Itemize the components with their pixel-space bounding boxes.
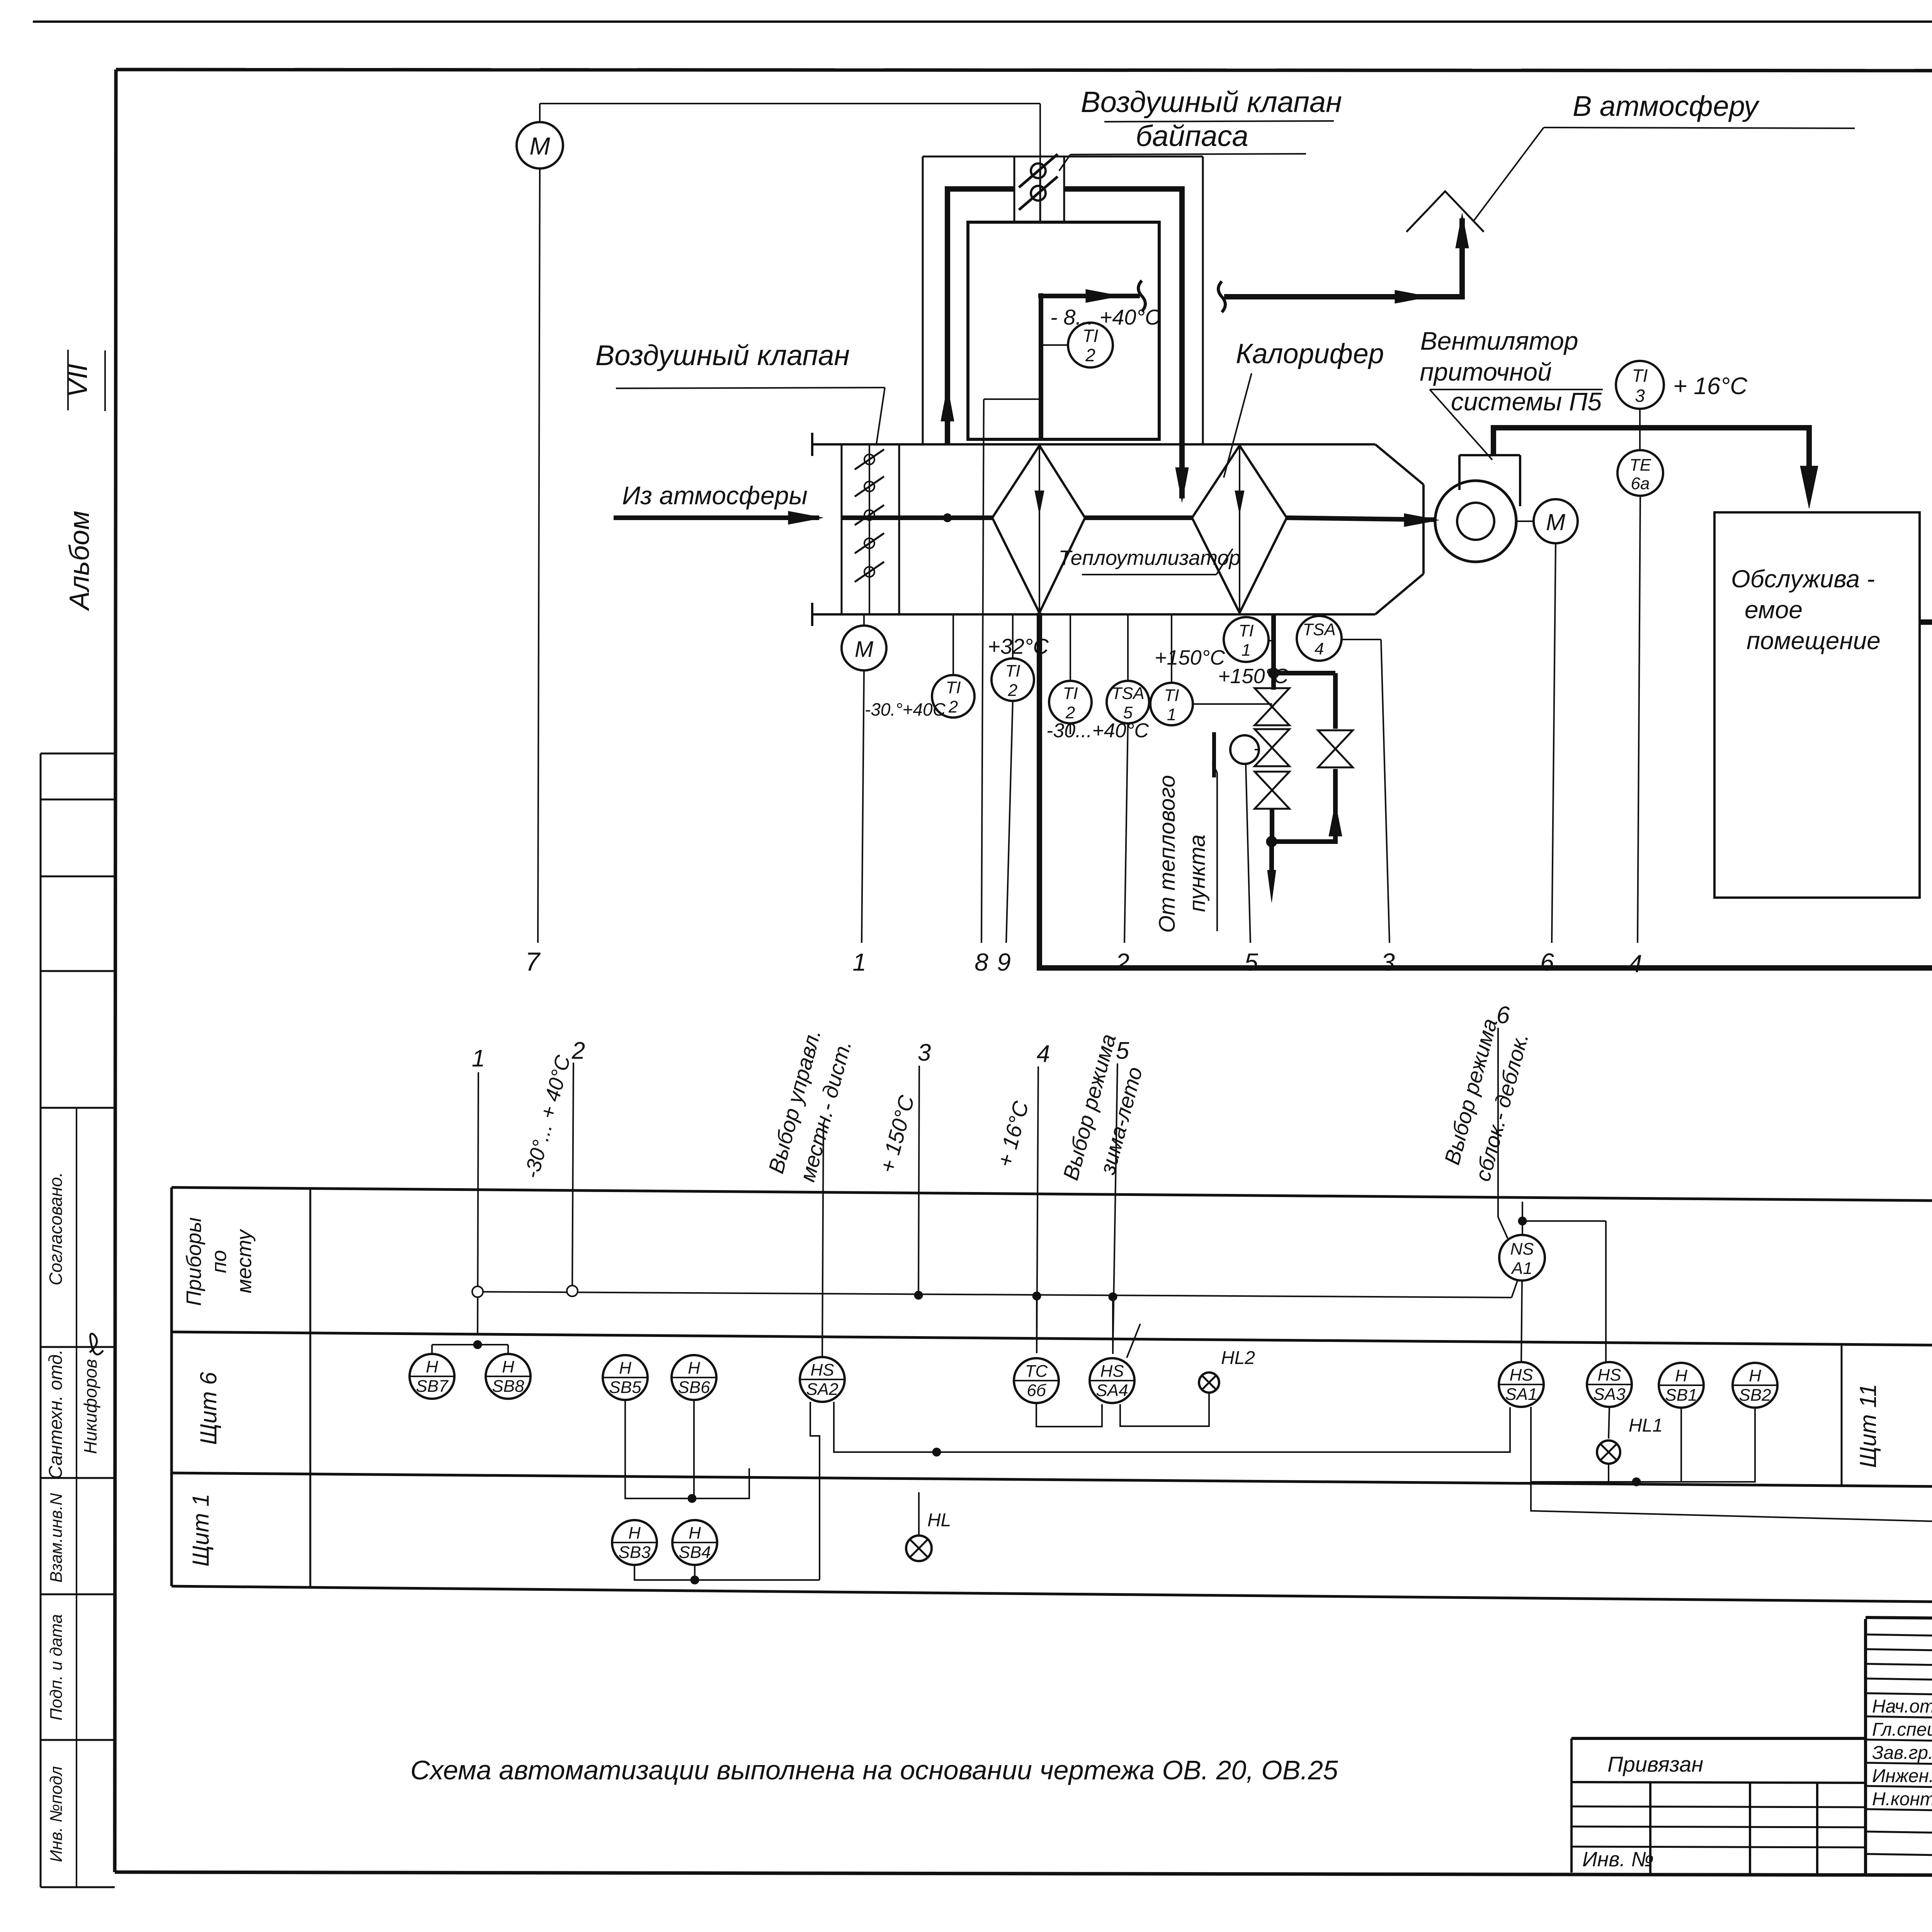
svg-text:М: М bbox=[855, 637, 874, 662]
svg-text:- 8... +40°С: - 8... +40°С bbox=[1050, 305, 1161, 329]
svg-text:Согласовано.: Согласовано. bbox=[46, 1172, 66, 1285]
svg-text:SВ5: SВ5 bbox=[609, 1378, 641, 1397]
svg-text:SА3: SА3 bbox=[1593, 1385, 1626, 1404]
svg-text:SА4: SА4 bbox=[1096, 1381, 1128, 1400]
svg-text:Альбом: Альбом bbox=[64, 511, 95, 611]
svg-text:Инв. №подл: Инв. №подл bbox=[47, 1766, 66, 1862]
svg-text:7: 7 bbox=[525, 947, 541, 976]
svg-text:3: 3 bbox=[1381, 948, 1395, 976]
svg-text:Инв. №: Инв. № bbox=[1582, 1848, 1654, 1871]
svg-text:Воздушный клапан: Воздушный клапан bbox=[595, 339, 850, 371]
svg-text:9: 9 bbox=[997, 948, 1011, 976]
svg-text:Зав.гр.: Зав.гр. bbox=[1872, 1743, 1932, 1763]
svg-text:Щит 1: Щит 1 bbox=[188, 1494, 214, 1567]
svg-text:5: 5 bbox=[1244, 948, 1258, 976]
svg-text:+150°С: +150°С bbox=[1218, 665, 1289, 688]
svg-text:ТSА: ТSА bbox=[1111, 684, 1145, 703]
svg-text:1: 1 bbox=[1242, 641, 1251, 660]
svg-text:3: 3 bbox=[1635, 386, 1645, 406]
svg-text:8: 8 bbox=[975, 948, 988, 976]
svg-text:В атмосферу: В атмосферу bbox=[1573, 90, 1760, 122]
svg-text:Н: Н bbox=[426, 1357, 438, 1376]
svg-text:НS: НS bbox=[810, 1361, 834, 1379]
svg-text:6б: 6б bbox=[1027, 1381, 1046, 1400]
svg-text:месту: месту bbox=[233, 1229, 256, 1293]
svg-text:6а: 6а bbox=[1631, 474, 1650, 493]
svg-text:Никифоров: Никифоров bbox=[80, 1359, 100, 1454]
svg-text:SВ2: SВ2 bbox=[1739, 1386, 1771, 1405]
svg-text:2: 2 bbox=[1115, 948, 1129, 976]
svg-text:Н: Н bbox=[628, 1524, 641, 1543]
svg-text:SВ6: SВ6 bbox=[678, 1378, 710, 1397]
svg-text:Воздушный клапан: Воздушный клапан bbox=[1081, 86, 1342, 119]
svg-text:Привязан: Привязан bbox=[1607, 1752, 1703, 1776]
svg-text:1: 1 bbox=[852, 948, 866, 976]
svg-text:2: 2 bbox=[1065, 703, 1075, 722]
svg-text:НL: НL bbox=[927, 1510, 951, 1531]
svg-text:емое: емое bbox=[1745, 596, 1803, 624]
svg-text:Взам.инв.N: Взам.инв.N bbox=[47, 1493, 66, 1583]
svg-text:Инжен.: Инжен. bbox=[1872, 1766, 1932, 1786]
svg-text:Нач.отд.: Нач.отд. bbox=[1872, 1696, 1932, 1717]
svg-text:+ 16°С: + 16°С bbox=[1673, 373, 1748, 400]
svg-text:приточной: приточной bbox=[1420, 357, 1552, 386]
svg-text:Н: Н bbox=[689, 1524, 701, 1543]
svg-text:6: 6 bbox=[1540, 948, 1554, 976]
svg-text:2: 2 bbox=[1008, 681, 1017, 700]
svg-text:ТSА: ТSА bbox=[1303, 620, 1336, 639]
svg-text:1: 1 bbox=[472, 1045, 485, 1072]
svg-text:Калорифер: Калорифер bbox=[1236, 338, 1384, 369]
svg-text:ТI: ТI bbox=[1083, 326, 1099, 346]
svg-text:Н: Н bbox=[502, 1357, 514, 1376]
svg-text:2: 2 bbox=[948, 697, 958, 716]
svg-text:НL1: НL1 bbox=[1629, 1415, 1663, 1436]
svg-text:5: 5 bbox=[1123, 703, 1133, 722]
svg-text:Вентилятор: Вентилятор bbox=[1420, 327, 1578, 355]
svg-text:ТС: ТС bbox=[1025, 1362, 1048, 1381]
svg-text:Гл.спец.: Гл.спец. bbox=[1872, 1719, 1932, 1740]
svg-text:SВ1: SВ1 bbox=[1665, 1386, 1697, 1405]
svg-text:ТI: ТI bbox=[1238, 621, 1253, 640]
svg-text:Из атмосферы: Из атмосферы bbox=[622, 481, 808, 510]
svg-text:по: по bbox=[207, 1250, 231, 1273]
svg-text:SВ8: SВ8 bbox=[492, 1377, 524, 1396]
svg-text:ТI: ТI bbox=[1063, 684, 1078, 703]
svg-text:SВ4: SВ4 bbox=[679, 1543, 711, 1562]
svg-text:ТЕ: ТЕ bbox=[1629, 456, 1651, 474]
svg-text:А1: А1 bbox=[1510, 1259, 1532, 1278]
svg-text:Н: Н bbox=[1749, 1366, 1761, 1385]
svg-text:+150°С: +150°С bbox=[1155, 646, 1225, 669]
svg-text:4: 4 bbox=[1315, 639, 1324, 658]
svg-text:Схема автоматизации выполнен: Схема автоматизации выполнена на основан… bbox=[410, 1755, 1338, 1785]
svg-text:М: М bbox=[1546, 509, 1565, 535]
svg-text:+32°С: +32°С bbox=[988, 634, 1049, 658]
svg-text:Н: Н bbox=[688, 1359, 700, 1378]
svg-text:ТI: ТI bbox=[1164, 686, 1179, 705]
svg-text:Обслужива -: Обслужива - bbox=[1731, 565, 1875, 593]
svg-text:2: 2 bbox=[1085, 345, 1095, 365]
svg-text:SВ7: SВ7 bbox=[416, 1377, 449, 1396]
svg-text:Щит 11: Щит 11 bbox=[1855, 1384, 1881, 1468]
svg-text:Н: Н bbox=[1675, 1366, 1687, 1385]
svg-text:SА2: SА2 bbox=[806, 1380, 838, 1399]
svg-text:системы П5: системы П5 bbox=[1451, 387, 1602, 416]
svg-text:НS: НS bbox=[1509, 1366, 1533, 1384]
svg-text:помещение: помещение bbox=[1747, 627, 1881, 655]
svg-text:НS: НS bbox=[1100, 1362, 1124, 1381]
svg-text:VII: VII bbox=[62, 364, 93, 398]
svg-text:М: М bbox=[529, 132, 550, 160]
svg-text:Н: Н bbox=[619, 1359, 631, 1378]
svg-text:SА1: SА1 bbox=[1505, 1385, 1537, 1404]
svg-text:пункта: пункта bbox=[1185, 835, 1210, 912]
svg-text:3: 3 bbox=[918, 1039, 931, 1066]
svg-text:ТI: ТI bbox=[1005, 662, 1020, 680]
svg-text:Сантехн. отд.: Сантехн. отд. bbox=[46, 1349, 66, 1479]
svg-text:ТI: ТI bbox=[1632, 366, 1648, 386]
svg-text:ТI: ТI bbox=[946, 678, 961, 697]
svg-text:1: 1 bbox=[1167, 705, 1176, 724]
svg-text:От теплового: От теплового bbox=[1155, 775, 1180, 933]
svg-text:4: 4 bbox=[1037, 1041, 1050, 1067]
svg-text:Приборы: Приборы bbox=[182, 1217, 206, 1306]
svg-text:Щит 6: Щит 6 bbox=[196, 1372, 221, 1445]
svg-text:NS: NS bbox=[1510, 1240, 1534, 1259]
svg-text:Н.контр.: Н.контр. bbox=[1872, 1789, 1932, 1810]
svg-text:НS: НS bbox=[1597, 1366, 1621, 1384]
svg-text:Теплоутилизатор: Теплоутилизатор bbox=[1058, 546, 1240, 570]
svg-text:НL2: НL2 bbox=[1221, 1348, 1255, 1368]
svg-text:байпаса: байпаса bbox=[1136, 120, 1248, 153]
svg-text:SВ3: SВ3 bbox=[618, 1543, 651, 1562]
svg-text:4: 4 bbox=[1628, 950, 1642, 978]
svg-text:Подп. и дата: Подп. и дата bbox=[47, 1614, 66, 1720]
